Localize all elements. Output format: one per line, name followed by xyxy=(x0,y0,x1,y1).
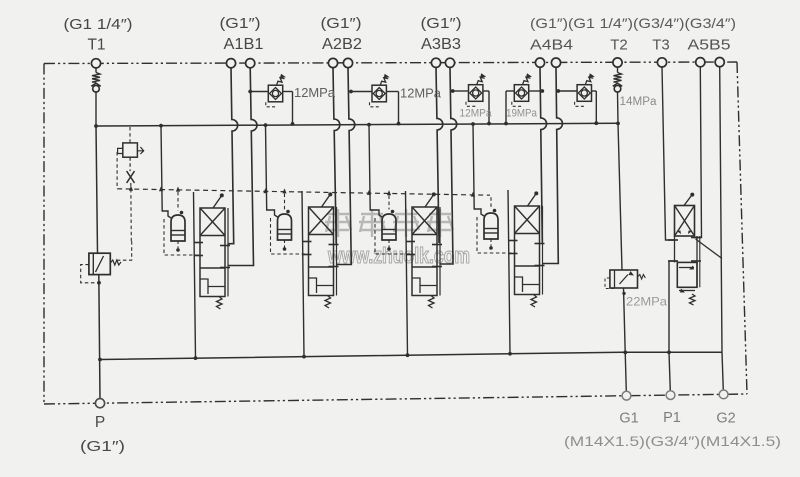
section 5 port ticks xyxy=(668,239,678,241)
wire G1 riser xyxy=(625,352,626,391)
pilot box left bracket xyxy=(118,148,123,153)
port P1 xyxy=(666,391,675,400)
P supply gallery line xyxy=(100,352,722,359)
svg-text:A4B4: A4B4 xyxy=(530,37,573,54)
port B2 xyxy=(343,58,352,67)
section 1 lower envelope cell xyxy=(200,267,225,269)
section 2 dashed pilot to spool xyxy=(271,218,309,254)
svg-text:T3: T3 xyxy=(652,37,670,54)
port T3 xyxy=(657,58,666,67)
svg-text:G2: G2 xyxy=(716,411,735,427)
wire B2 drop xyxy=(337,68,355,265)
LS junction arrow at x=178 xyxy=(176,187,180,192)
svg-text:(G1″): (G1″) xyxy=(321,15,362,32)
dashed wire gallery to pilot box xyxy=(129,127,131,143)
svg-text:12MPa: 12MPa xyxy=(294,86,335,100)
section 5 handle xyxy=(684,196,692,206)
valve section 3 body envelope xyxy=(412,207,437,296)
port B1 xyxy=(246,59,255,68)
valve section 4 body envelope xyxy=(515,206,540,295)
section 3 dashed drain below pear xyxy=(388,240,390,249)
svg-text:(G1″): (G1″) xyxy=(421,15,462,32)
section 2 port ticks xyxy=(302,241,312,243)
section 3 centering spring xyxy=(429,296,435,309)
svg-text:A2B2: A2B2 xyxy=(322,36,362,53)
section 5 lower envelope xyxy=(677,262,697,287)
wire 22MPa relief to P gallery xyxy=(624,288,626,352)
LS junction arrow at x=389 xyxy=(387,190,391,195)
wire G2 corner riser xyxy=(722,352,723,390)
22MPa relief spring right xyxy=(638,275,646,280)
wire T2 down to 22MPa relief xyxy=(618,123,622,270)
section 4 handle xyxy=(528,195,536,207)
section 2 dashed drain below pear xyxy=(284,240,286,249)
section 1 dashed pilot riser from pear xyxy=(177,192,179,211)
valve section 2 body envelope xyxy=(309,207,334,296)
wire spool to B5 xyxy=(696,239,722,259)
main relief internal arrow xyxy=(96,256,104,272)
watermark CJK characters xyxy=(325,209,453,237)
svg-text:G1: G1 xyxy=(619,411,638,427)
svg-text:A1B1: A1B1 xyxy=(224,36,264,53)
section 5 mid walls xyxy=(674,236,676,262)
section 4 body double line xyxy=(542,206,544,295)
wire P1 riser xyxy=(669,352,670,391)
svg-text:A3B3: A3B3 xyxy=(421,36,461,53)
port B3 xyxy=(445,58,454,67)
section 1 pressure feed riser xyxy=(194,192,196,358)
port B4 xyxy=(551,58,560,67)
pilot box right arrow xyxy=(137,147,143,154)
svg-text:19MPa: 19MPa xyxy=(506,108,538,120)
port A1 xyxy=(226,59,235,68)
svg-text:12MPa: 12MPa xyxy=(460,108,493,120)
LS junction arrow at x=473 xyxy=(471,192,475,197)
section 2 anti-cavitation check (pear) xyxy=(278,214,292,240)
section 3 lower envelope cell xyxy=(412,266,437,268)
section 2 lower envelope cell xyxy=(309,266,334,268)
wire B5 drop to G2 corner xyxy=(720,67,722,353)
wire P riser (pump line) xyxy=(96,126,98,253)
section 3 dashed pilot to spool xyxy=(375,218,412,254)
main relief spring (right) xyxy=(110,260,121,265)
port G2 xyxy=(719,390,728,399)
section 2 pressure feed riser xyxy=(302,191,304,357)
section 1 dashed drain below pear xyxy=(177,241,179,250)
section 2 handle xyxy=(322,196,330,208)
svg-text:P: P xyxy=(95,414,105,431)
wire B1 drop xyxy=(229,68,257,266)
T return gallery line xyxy=(96,123,618,126)
section 1 centering spring xyxy=(217,297,223,310)
section 4 port ticks xyxy=(508,240,518,242)
section 4 dashed pilot riser from pear xyxy=(490,197,492,208)
wire A1 drop xyxy=(229,68,238,244)
enclosure border (dash-dot) xyxy=(44,62,737,64)
check ball seat at T2 xyxy=(613,83,622,86)
svg-text:22MPa: 22MPa xyxy=(626,295,667,309)
section 2 body double line xyxy=(336,207,338,296)
dashed wire throttle down to LS gallery xyxy=(130,183,133,241)
wire T3 drop to section 5 xyxy=(662,67,675,240)
section 4 spool crossed cell xyxy=(515,233,540,235)
relief valve R4 19MPa (port A4) xyxy=(514,85,528,102)
svg-text:(G1″): (G1″) xyxy=(220,15,261,32)
valve section 5 spool (crossed box) xyxy=(675,206,695,237)
section 4 pressure feed riser xyxy=(508,190,510,354)
22MPa relief internal arrow xyxy=(620,275,629,285)
svg-text:T1: T1 xyxy=(87,37,105,54)
section 4 centering spring xyxy=(531,295,537,308)
section 3 spool crossed cell xyxy=(412,234,437,236)
relief valve R1 12MPa (port B1) xyxy=(268,85,282,102)
throttle X below pilot box xyxy=(129,157,131,171)
port P xyxy=(95,399,104,408)
main relief dashed pilot to throttle xyxy=(117,241,132,260)
svg-text:(G1 1/4″): (G1 1/4″) xyxy=(64,16,133,33)
section 3 port ticks xyxy=(406,241,416,243)
section 1 dashed pilot to spool xyxy=(164,219,200,255)
relief valve R3 12MPa (port B3) xyxy=(469,85,483,102)
wire B4 drop xyxy=(543,67,562,263)
port T1 xyxy=(95,68,97,73)
section 1 body double line xyxy=(227,208,229,297)
section 1 port ticks xyxy=(194,242,204,244)
port A2 xyxy=(328,58,337,67)
wire A3 drop xyxy=(436,67,443,242)
section 2 spool crossed cell xyxy=(309,234,334,236)
relief valve R2 12MPa (port B2) xyxy=(372,85,386,102)
port B5 xyxy=(715,58,724,67)
main relief dashed drain hook xyxy=(81,265,99,283)
svg-text:A5B5: A5B5 xyxy=(688,37,731,54)
pilot valve box xyxy=(123,143,138,157)
section 1 feed from T gallery to pear xyxy=(161,126,171,218)
section 3 feed from T gallery to pear xyxy=(369,125,382,217)
section 4 dashed drain below pear xyxy=(490,239,492,248)
back-pressure check valve at T1 (spring) xyxy=(92,73,100,83)
22MPa relief dashed bracket xyxy=(605,278,614,289)
port A5 xyxy=(696,58,705,67)
section 3 body double line xyxy=(439,207,441,296)
port G1 xyxy=(622,391,631,400)
wire A2 drop xyxy=(333,68,340,243)
section 3 pressure feed riser xyxy=(406,191,408,355)
wire T2 to gallery junction xyxy=(617,92,620,123)
section 4 lower envelope cell xyxy=(515,265,540,267)
port T2 back-pressure valve (spring) xyxy=(617,67,619,73)
svg-text:P1: P1 xyxy=(663,410,681,426)
svg-text:T2: T2 xyxy=(610,37,628,54)
dashed vertical left of pilot box xyxy=(116,152,118,189)
section 3 handle xyxy=(425,196,433,208)
svg-text:14MPa: 14MPa xyxy=(620,96,658,108)
LS junction arrow at x=265.5 xyxy=(263,188,267,193)
section 2 dashed pilot riser from pear xyxy=(284,194,286,210)
check ball seat at T1 xyxy=(91,83,100,86)
LS junction arrow at x=369 xyxy=(367,190,371,195)
wire B3 drop xyxy=(441,67,457,264)
svg-text:(M14X1.5)(G3/4″)(M14X1.5): (M14X1.5)(G3/4″)(M14X1.5) xyxy=(564,434,781,449)
valve section 1 body envelope xyxy=(200,208,225,297)
wire P1 riser upper / section 5 feed xyxy=(668,261,670,352)
section 3 dashed pilot riser from pear xyxy=(388,195,390,209)
wire A4 drop xyxy=(540,67,547,242)
section 4 dashed pilot to spool xyxy=(477,217,514,253)
wire T1 check to gallery xyxy=(95,92,97,126)
relief valve 22MPa xyxy=(610,270,638,288)
section 2 feed from T gallery to pear xyxy=(266,125,278,217)
wire A5 drop xyxy=(695,67,702,238)
relief valve R5 (port B4) xyxy=(577,85,591,102)
section 2 centering spring xyxy=(325,296,331,309)
load-sensing dashed gallery xyxy=(117,189,490,195)
section 1 spool crossed cell xyxy=(200,235,225,237)
section 3 anti-cavitation check (pear) xyxy=(382,214,396,240)
svg-text:(G1″): (G1″) xyxy=(80,438,125,455)
svg-text:(G1″)(G1 1/4″)(G3/4″)(G3/4″): (G1″)(G1 1/4″)(G3/4″)(G3/4″) xyxy=(530,15,736,31)
section 4 feed from T gallery to pear xyxy=(473,124,484,216)
LS junction arrow at x=161 xyxy=(159,186,163,191)
section 5 spring xyxy=(690,294,696,305)
main relief valve xyxy=(89,253,110,274)
section 1 anti-cavitation check (pear) xyxy=(171,215,185,241)
LS junction arrow at x=284.5 xyxy=(282,188,286,193)
port T1 xyxy=(91,59,100,68)
svg-text:12MPa: 12MPa xyxy=(400,87,441,101)
port A4 xyxy=(535,58,544,67)
port T2 xyxy=(613,58,622,67)
section 4 anti-cavitation check (pear) xyxy=(484,213,498,239)
LS junction arrow at x=131 xyxy=(129,186,133,191)
section 1 handle xyxy=(213,197,221,209)
section 5 double line xyxy=(699,236,701,287)
port A3 xyxy=(431,58,440,67)
